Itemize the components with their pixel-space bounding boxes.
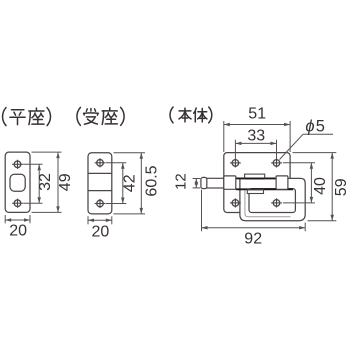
hinge fold line [236,177,276,179]
label (hira-za) flat strike plate [3,108,51,126]
screw hole P2 bottom [95,199,106,208]
dimension 59 (body overall height) [293,153,350,221]
dimension 42 (P2 hole spacing) [106,163,139,204]
plate P2 body [88,153,112,214]
screw hole B top-left [230,158,241,167]
plate P1 body [5,152,30,212]
svg-text:51: 51 [248,106,266,123]
svg-text:ϕ5: ϕ5 [305,117,326,135]
svg-text:20: 20 [92,223,110,240]
plate P2 upper fold line [88,172,112,174]
label (uke-za) receiving plate [77,107,124,125]
bail handle outer [240,178,305,220]
dimension 60.5 (P2 height) [114,153,161,214]
flap fold dark line [236,188,293,190]
screw hole B bottom-right [271,198,282,207]
label phi-5 hole diameter with leader [280,117,334,159]
svg-text:42: 42 [121,174,138,192]
svg-text:33: 33 [247,127,265,144]
svg-text:49: 49 [57,173,74,191]
plate P1 latch hole [10,174,25,191]
hinge middle knuckle [245,174,265,178]
dimension 33 (body hole spacing) [235,127,276,158]
bail handle inner [245,189,291,217]
dimension 32 (P1 hole spacing) [23,164,54,203]
hinge knuckle right [276,176,288,189]
plate P2 lower fold line [88,190,112,192]
svg-text:32: 32 [37,173,54,191]
screw hole P1 top [12,160,23,169]
dimension 20 (P1 width) [5,215,30,240]
flap notch tab [247,190,263,194]
screw hole B top-right [271,158,282,167]
main body back plate [224,153,290,213]
svg-text:12: 12 [172,173,189,190]
screw hole P2 top [95,158,106,167]
dimension 49 (P1 height) [32,152,75,212]
svg-text:40: 40 [312,177,329,195]
label (hontai) main body [170,107,212,123]
hinge knuckle left [224,176,236,189]
bolt pin end cap [201,177,207,188]
svg-text:92: 92 [244,231,262,248]
svg-text:60.5: 60.5 [143,165,160,196]
dimension 51 (body plate width) [224,106,290,152]
screw hole P1 bottom [12,199,23,208]
bolt pin body [207,178,224,188]
svg-text:20: 20 [9,223,27,240]
dimension 40 (body hole vertical spacing) [283,163,329,203]
dimension 12 (pin height) [172,173,200,190]
screw hole B bottom-left [230,198,241,207]
latch flap [249,189,295,213]
dimension 92 (body overall width) [202,190,306,248]
dimension 20 (P2 width) [88,216,112,240]
svg-text:59: 59 [333,178,350,196]
